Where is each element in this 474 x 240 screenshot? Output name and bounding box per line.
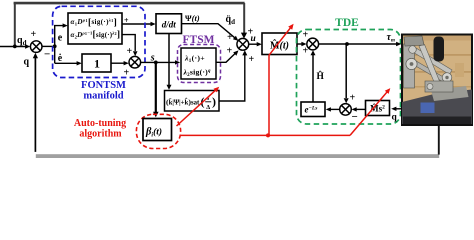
svg-text:+: + xyxy=(350,93,356,104)
svg-text:+: + xyxy=(303,30,309,41)
wire s from J3 to FTSM xyxy=(141,61,177,63)
wire Mhat out to J4 xyxy=(297,43,304,45)
svg-text:Δ: Δ xyxy=(206,104,210,111)
wire e up to alpha block xyxy=(55,26,64,64)
svg-text:+: + xyxy=(31,29,37,40)
wire red up to Mhat arrow xyxy=(269,26,292,136)
node tau branch dot xyxy=(345,42,349,46)
block alpha fractional terms xyxy=(68,13,122,44)
box TDE dashed xyxy=(297,30,401,125)
svg-text:e: e xyxy=(58,33,63,44)
svg-text:−: − xyxy=(44,49,50,61)
svg-text:+: + xyxy=(127,46,133,57)
summing junction J2 xyxy=(237,38,249,50)
block Ms2 xyxy=(366,101,390,116)
box FONTSM manifold dashed xyxy=(53,6,145,77)
node qd branch dot xyxy=(13,45,17,49)
block d/dt xyxy=(156,14,182,34)
wire red beta bottom bus xyxy=(181,134,350,136)
block delay e-Ls xyxy=(301,102,325,117)
svg-text:Ψ(t): Ψ(t) xyxy=(185,13,200,23)
wire alpha row2 out down to J3 xyxy=(122,35,135,51)
wire u to Mhat xyxy=(249,43,259,45)
wire q from robot to Ms2 xyxy=(395,108,403,110)
svg-text:λ2sig(·)q: λ2sig(·)q xyxy=(183,68,211,79)
wire q feedback vertical xyxy=(34,57,36,152)
svg-text:q: q xyxy=(24,57,30,68)
svg-text:q: q xyxy=(392,113,398,123)
node e branch dot xyxy=(53,44,57,48)
wire 1 out to J3 xyxy=(111,62,125,64)
wire qd thick top feedforward line xyxy=(14,3,245,46)
svg-text:+: + xyxy=(227,46,233,57)
wire q feedback bottom thick band xyxy=(36,154,439,158)
svg-text:(k̄|Ψ|+k̂)sat: (k̄|Ψ|+k̂)sat xyxy=(166,97,200,106)
wire red beta to sat gain arrow xyxy=(177,88,218,126)
summing junction J5 xyxy=(340,104,352,116)
box FTSM dashed xyxy=(178,45,221,83)
svg-text:+: + xyxy=(303,46,309,57)
box auto-tuning dashed red stadium xyxy=(136,114,180,148)
block Mhat(t) xyxy=(262,33,297,55)
svg-text:βi(t): βi(t) xyxy=(145,127,162,139)
wire from photo down to band xyxy=(438,125,440,155)
svg-text:d/dt: d/dt xyxy=(162,20,177,30)
svg-text:+: + xyxy=(249,54,255,65)
summing junction J4 xyxy=(307,38,319,50)
wire Ms2 out to J5 xyxy=(355,108,366,110)
wire e from J1 xyxy=(42,45,55,47)
svg-text:Ĥ: Ĥ xyxy=(317,70,325,82)
wire sat out up to J2 xyxy=(219,54,245,101)
wire J5 out to delay xyxy=(329,108,340,110)
svg-text:ė: ė xyxy=(58,53,63,64)
wire tau to robot xyxy=(319,43,398,45)
wire Hhat up to J4 xyxy=(312,55,314,102)
svg-text:1: 1 xyxy=(94,57,100,71)
wire alpha row1 out to d/dt xyxy=(122,23,152,25)
svg-text:TDE: TDE xyxy=(335,17,359,29)
node s dot xyxy=(154,61,158,65)
summing junction J1 xyxy=(30,41,42,53)
wire qd input xyxy=(0,46,27,48)
svg-text:FONTSM: FONTSM xyxy=(81,80,126,91)
wire Psi from d/dt to J2 xyxy=(182,24,237,39)
svg-text:u: u xyxy=(251,34,256,44)
wire lambda out to J2 xyxy=(216,52,237,63)
summing junction J3 xyxy=(129,56,141,68)
wire s down to beta block xyxy=(155,62,157,112)
node red branch dot xyxy=(266,133,270,137)
block sat gain xyxy=(165,91,220,112)
svg-text:algorithm: algorithm xyxy=(79,129,122,140)
block lambda FTSM law xyxy=(181,48,216,79)
svg-text:−: − xyxy=(352,111,358,123)
svg-text:s: s xyxy=(150,53,155,64)
svg-text:): ) xyxy=(212,95,216,109)
block beta xyxy=(143,119,172,141)
wire red diagonal to Ms2 arrow xyxy=(350,90,389,136)
wire tau branch down to J5 xyxy=(345,44,347,98)
svg-text:λ1(·)+: λ1(·)+ xyxy=(184,54,205,65)
svg-text:manifold: manifold xyxy=(83,91,123,102)
wire edot to 1 block xyxy=(55,62,78,64)
robot photo xyxy=(402,35,472,126)
block 1 xyxy=(82,54,111,72)
svg-text:+: + xyxy=(227,32,233,43)
wire d/dt down to sat block xyxy=(168,34,170,86)
svg-text:Auto-tuning: Auto-tuning xyxy=(74,118,126,129)
